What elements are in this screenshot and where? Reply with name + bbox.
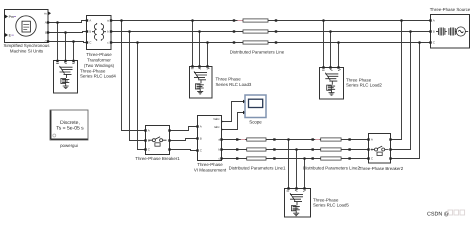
svg-text:A: A bbox=[433, 19, 435, 23]
svg-text:A: A bbox=[89, 19, 91, 23]
svg-text:Three-Phase: Three-Phase bbox=[313, 197, 339, 202]
svg-text:Scope: Scope bbox=[249, 120, 262, 125]
svg-text:Simplified Synchronous: Simplified Synchronous bbox=[4, 43, 51, 48]
svg-text:Transformer: Transformer bbox=[87, 58, 111, 63]
svg-text:B: B bbox=[433, 30, 435, 34]
svg-text:Three-Phase: Three-Phase bbox=[86, 52, 112, 57]
svg-text:Pm: Pm bbox=[9, 15, 14, 19]
svg-text:Series RLC Load5: Series RLC Load5 bbox=[313, 203, 349, 208]
svg-text:VI Measurement: VI Measurement bbox=[194, 167, 227, 172]
svg-text:A: A bbox=[148, 129, 150, 133]
svg-text:Three-Phase Source: Three-Phase Source bbox=[430, 7, 471, 12]
svg-text:Three-Phase Breaker1: Three-Phase Breaker1 bbox=[135, 156, 180, 161]
svg-text:Distributed Parameters Line2: Distributed Parameters Line2 bbox=[303, 166, 360, 171]
svg-text:(Two Windings): (Two Windings) bbox=[84, 63, 115, 68]
svg-text:Three Phase: Three Phase bbox=[346, 77, 372, 82]
svg-text:A: A bbox=[371, 138, 373, 142]
svg-text:B: B bbox=[89, 30, 91, 34]
svg-text:powergui: powergui bbox=[60, 143, 78, 148]
svg-text:B: B bbox=[200, 137, 202, 141]
svg-text:Three-Phase: Three-Phase bbox=[197, 162, 223, 167]
svg-text:Series RLC Load3: Series RLC Load3 bbox=[216, 82, 252, 87]
svg-text:Vabc: Vabc bbox=[213, 117, 220, 121]
svg-text:A: A bbox=[200, 125, 202, 129]
svg-text:Three Phase: Three Phase bbox=[216, 77, 242, 82]
svg-text:Series RLC Load2: Series RLC Load2 bbox=[346, 83, 382, 88]
svg-text:Iabc: Iabc bbox=[214, 125, 220, 129]
svg-text:A: A bbox=[45, 21, 47, 25]
svg-text:Ts = 5e-05 s: Ts = 5e-05 s bbox=[56, 126, 84, 132]
svg-text:CSDN @: CSDN @ bbox=[427, 212, 449, 218]
svg-text:Machine SI Units: Machine SI Units bbox=[10, 48, 44, 53]
svg-text:Distributed Parameters Line1: Distributed Parameters Line1 bbox=[229, 166, 286, 171]
svg-text:Three-Phase Breaker2: Three-Phase Breaker2 bbox=[359, 166, 404, 171]
svg-text:Three-Phase: Three-Phase bbox=[80, 68, 106, 73]
svg-text:B: B bbox=[45, 31, 47, 35]
svg-text:Series RLC Load4: Series RLC Load4 bbox=[80, 74, 116, 79]
svg-text:Distributed Parameters Line: Distributed Parameters Line bbox=[230, 49, 285, 54]
svg-text:B: B bbox=[148, 139, 150, 143]
